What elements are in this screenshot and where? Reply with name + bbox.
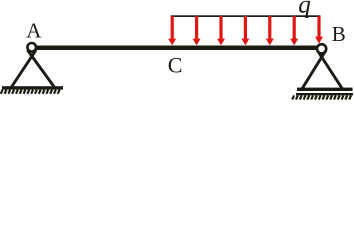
svg-text:B: B	[332, 22, 346, 46]
support A legs (crossed)	[11, 50, 55, 88]
svg-text:C: C	[168, 52, 183, 77]
load arrow 4	[241, 16, 249, 45]
support B hatching	[292, 95, 351, 99]
pin circle A	[27, 43, 36, 52]
load arrow 7	[315, 16, 323, 43]
load arrow 6	[290, 16, 298, 45]
load arrow 3	[217, 16, 225, 45]
support B ground line	[296, 93, 353, 95]
support A hatching	[1, 90, 60, 94]
distributed load top line	[171, 15, 321, 17]
load arrow 2	[193, 16, 201, 45]
distributed load right edge	[319, 16, 321, 28]
load arrow 5	[266, 16, 274, 45]
svg-text:A: A	[26, 19, 42, 43]
support B legs (crossed)	[302, 51, 343, 90]
pin circle B	[317, 44, 326, 53]
support B base line	[297, 88, 353, 91]
support A base line	[2, 86, 63, 89]
load arrow 1	[168, 16, 176, 45]
beam AB	[33, 46, 318, 51]
